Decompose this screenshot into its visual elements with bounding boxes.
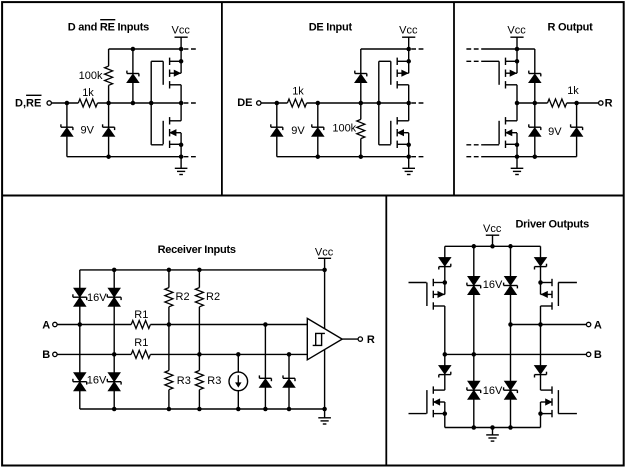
svg-text:A: A	[594, 319, 602, 331]
svg-text:D,RE: D,RE	[15, 98, 41, 110]
svg-text:R3: R3	[177, 375, 191, 387]
svg-text:Vcc: Vcc	[507, 25, 526, 37]
svg-text:R2: R2	[176, 291, 190, 303]
svg-text:16V: 16V	[87, 375, 107, 387]
svg-text:B: B	[42, 349, 50, 361]
svg-text:Receiver Inputs: Receiver Inputs	[158, 244, 236, 256]
svg-text:DE Input: DE Input	[309, 22, 353, 34]
svg-text:16V: 16V	[483, 279, 503, 291]
svg-text:R2: R2	[206, 291, 220, 303]
svg-text:1k: 1k	[82, 87, 94, 99]
svg-text:R3: R3	[207, 375, 221, 387]
svg-text:1k: 1k	[567, 85, 579, 97]
svg-text:9V: 9V	[548, 126, 562, 138]
svg-text:R Output: R Output	[547, 22, 593, 34]
svg-text:R1: R1	[134, 337, 148, 349]
svg-text:Vcc: Vcc	[315, 247, 334, 259]
svg-text:B: B	[594, 349, 602, 361]
svg-text:100k: 100k	[79, 70, 103, 82]
svg-text:16V: 16V	[87, 292, 107, 304]
svg-text:9V: 9V	[80, 125, 94, 137]
svg-text:R: R	[605, 97, 613, 109]
svg-text:9V: 9V	[291, 125, 305, 137]
svg-text:Vcc: Vcc	[172, 25, 191, 37]
svg-text:R1: R1	[134, 309, 148, 321]
svg-text:A: A	[42, 319, 50, 331]
svg-text:R: R	[367, 334, 375, 346]
svg-text:Vcc: Vcc	[483, 223, 502, 235]
svg-text:1k: 1k	[292, 86, 304, 98]
svg-text:16V: 16V	[483, 385, 503, 397]
svg-text:DE: DE	[237, 97, 252, 109]
svg-text:100k: 100k	[332, 123, 356, 135]
svg-text:Driver Outputs: Driver Outputs	[515, 219, 589, 231]
svg-text:D and RE Inputs: D and RE Inputs	[68, 22, 149, 34]
svg-text:Vcc: Vcc	[399, 25, 418, 37]
